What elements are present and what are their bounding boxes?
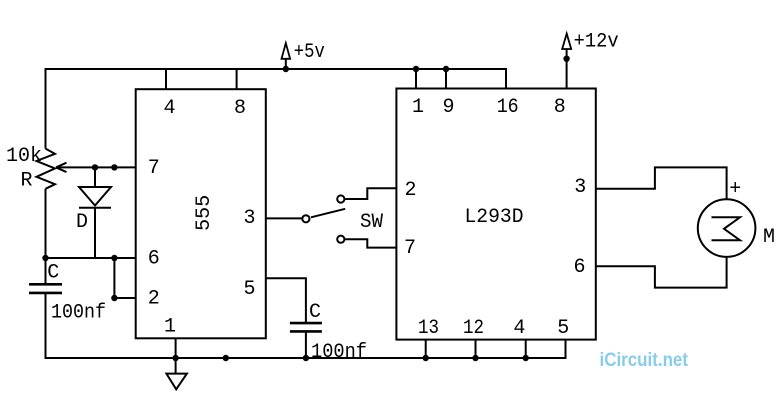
wire 555 pin5 to capacitor <box>266 278 306 323</box>
node dot rail pin6 <box>42 255 48 261</box>
svg-text:3: 3 <box>243 207 255 230</box>
svg-text:7: 7 <box>404 237 416 260</box>
svg-text:L293D: L293D <box>465 206 524 229</box>
node dot capacitor bottom <box>303 355 309 361</box>
op 555 IC body U1 <box>136 89 266 338</box>
wire L293D pin12 stub <box>475 340 477 358</box>
svg-text:+5v: +5v <box>294 41 325 64</box>
node dot pin7 link <box>111 164 117 170</box>
wire capacitor to ground rail <box>305 331 307 358</box>
svg-text:100nf: 100nf <box>51 301 106 324</box>
wire 555 pin8 stub <box>236 69 238 89</box>
svg-text:16: 16 <box>497 96 519 119</box>
wire 555 pin4 stub <box>165 69 167 89</box>
svg-text:13: 13 <box>418 317 439 340</box>
node dot L293D pin9 <box>443 66 449 72</box>
node dot ground <box>172 355 178 361</box>
switch SW lever <box>311 209 345 218</box>
node dot pin7 diode <box>92 164 98 170</box>
motor M glyph <box>712 217 741 240</box>
svg-text:1: 1 <box>164 316 176 339</box>
switch SW upper contact <box>337 195 344 202</box>
svg-text:2: 2 <box>148 288 160 311</box>
wire left rail upper <box>45 68 47 149</box>
diode D <box>94 167 96 187</box>
ground symbol <box>166 374 187 390</box>
svg-text:8: 8 <box>554 96 566 119</box>
svg-text:9: 9 <box>442 96 454 119</box>
svg-text:iCircuit.net: iCircuit.net <box>600 350 689 371</box>
svg-text:1: 1 <box>412 96 424 119</box>
node dot pin6 link <box>111 255 117 261</box>
wire switch lower to L293D pin7 <box>344 239 396 247</box>
wire bottom ground rail <box>46 357 566 359</box>
svg-text:C: C <box>309 301 321 324</box>
capacitor C 100nf right <box>290 322 322 325</box>
wire pin6 net <box>46 257 136 259</box>
capacitor C 100nf left <box>29 283 62 286</box>
wire L293D pin3 to motor <box>596 167 727 199</box>
wire pin2 net <box>114 297 135 299</box>
svg-text:M: M <box>763 226 775 249</box>
svg-text:7: 7 <box>148 157 160 180</box>
wire left rail lower <box>45 293 47 359</box>
svg-text:3: 3 <box>574 176 586 199</box>
svg-text:+12v: +12v <box>574 31 619 54</box>
node dot +5v <box>283 66 289 72</box>
switch SW common contact <box>302 215 309 222</box>
wire 555 pin3 to switch <box>266 217 303 219</box>
power +5v symbol <box>285 59 287 69</box>
node dot +12v <box>563 56 569 62</box>
svg-text:2: 2 <box>404 179 416 202</box>
svg-text:4: 4 <box>163 97 175 120</box>
svg-text:R: R <box>20 169 32 192</box>
svg-text:6: 6 <box>148 248 160 271</box>
resistor R 10k potentiometer zigzag <box>37 149 56 189</box>
node dot pin4 <box>523 355 529 361</box>
svg-text:4: 4 <box>513 317 525 340</box>
svg-text:555: 555 <box>193 195 216 231</box>
wire L293D pin9 stub <box>445 69 447 89</box>
wire L293D pin1 stub <box>415 69 417 89</box>
node dot pin12 <box>472 355 478 361</box>
wire pin6-pin2 link <box>113 258 115 298</box>
wire L293D pin4 stub <box>525 340 527 358</box>
switch SW lower contact <box>337 236 344 243</box>
svg-text:6: 6 <box>573 256 585 279</box>
wire L293D pin6 to motor <box>596 257 727 288</box>
node dot L293D pin1 <box>413 66 419 72</box>
wire left rail middle <box>45 189 47 284</box>
node dot pin13 <box>423 355 429 361</box>
wire 555 pin1 stub <box>175 338 177 373</box>
svg-text:D: D <box>76 211 88 234</box>
svg-text:C: C <box>47 262 59 285</box>
wire top rail +5v <box>46 68 507 70</box>
svg-text:SW: SW <box>360 211 383 234</box>
wire pin7 wiper <box>56 166 136 168</box>
op L293D IC body U2 <box>396 89 595 340</box>
svg-text:12: 12 <box>463 317 484 340</box>
svg-text:10k: 10k <box>6 145 42 168</box>
svg-text:5: 5 <box>243 278 255 301</box>
node dot bottom mid <box>223 355 229 361</box>
wire L293D pin16 stub <box>505 68 507 89</box>
power +12v symbol <box>566 49 568 89</box>
wire L293D pin13 stub <box>425 340 427 358</box>
potentiometer wiper arrowhead <box>56 163 67 172</box>
svg-text:100nf: 100nf <box>311 341 367 364</box>
motor M body <box>698 199 756 257</box>
svg-text:8: 8 <box>234 97 246 120</box>
svg-text:+: + <box>729 178 741 201</box>
wire L293D pin5 stub <box>565 340 567 359</box>
wire switch upper to L293D pin2 <box>344 188 396 199</box>
node dot pin2 link <box>111 295 117 301</box>
svg-text:5: 5 <box>557 317 569 340</box>
